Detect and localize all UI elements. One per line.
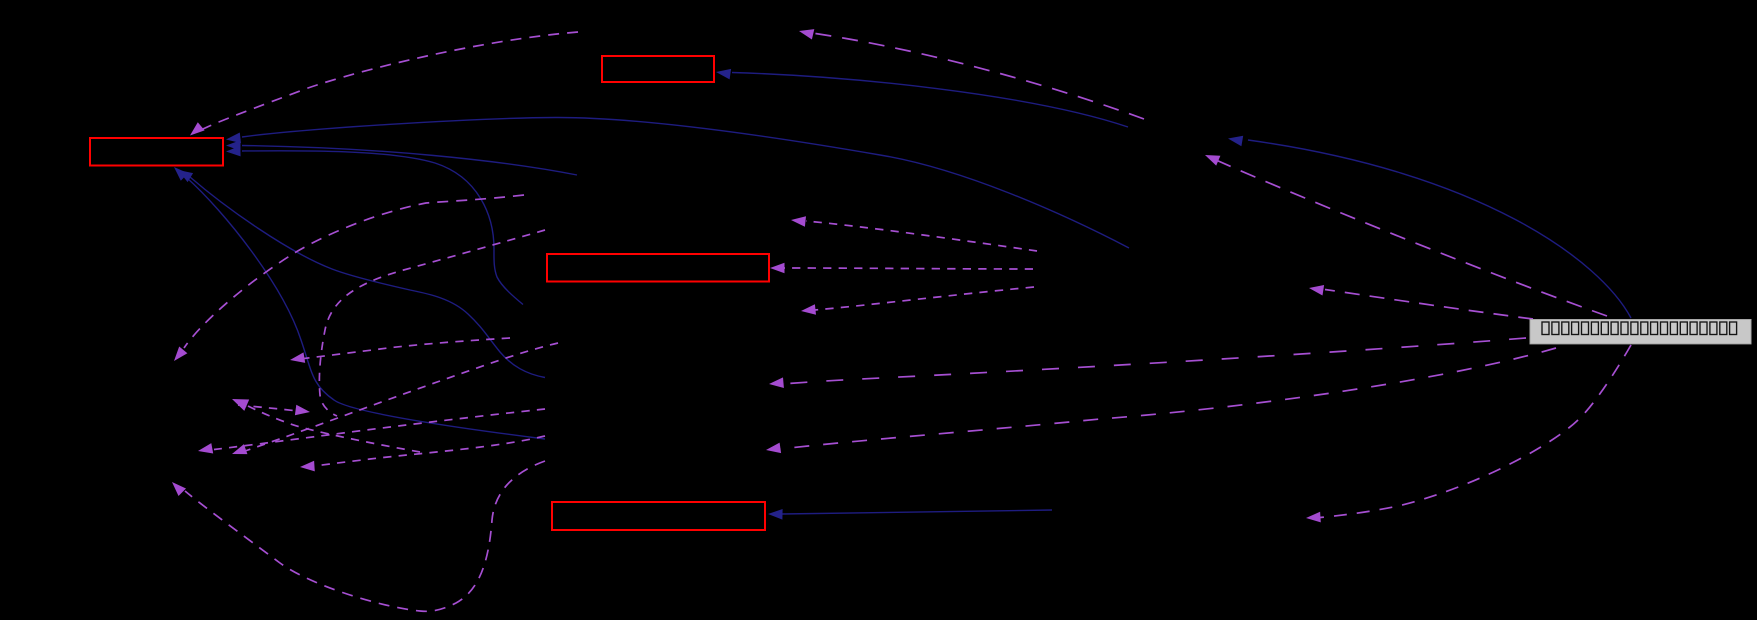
edge dashed H4 [214, 409, 545, 450]
node B2 (red box) [90, 138, 223, 166]
edge blue Na to B2 bottom 2 [190, 177, 545, 378]
arrowhead 768,450 (P3) [766, 443, 781, 454]
edge dashed NH2 to arrow292 (H2) [304, 338, 510, 359]
edge dashed X5 to arrow793 [806, 221, 1037, 251]
edge dashed gray-box corner to arrow1310 [1325, 290, 1533, 320]
edge dashed swoop H7 [185, 461, 545, 611]
arrowhead 803,311 [801, 304, 816, 315]
arrowhead H3 234,399 [232, 399, 249, 411]
edge dashed beta to NV [238, 405, 298, 411]
arrowhead 771,384 (P1) [769, 377, 784, 388]
edge dashed gray-box to arrow1206 [1216, 160, 1607, 316]
edge dashed A to arrow175 (H1) [184, 195, 524, 348]
node current (gray box with missing-glyph label) [1530, 320, 1751, 344]
edge dashed X5 to arrow803 [815, 287, 1034, 310]
edge dashed H6 [315, 436, 545, 466]
node B3 (red box) [547, 254, 769, 282]
arrowhead H5 234,454 [232, 444, 247, 454]
arrowhead H7 173,483 [172, 482, 186, 496]
edge dashed gray-box swoop to arrow1307 [1320, 345, 1631, 518]
node B4 (red box) [552, 502, 765, 530]
edge dashed gray-box to arrow771 (P1) [783, 338, 1526, 384]
arrowhead H2 292,360 [290, 352, 305, 363]
arrowhead H6 302,467 [300, 461, 315, 472]
edge blue X8 to B2 middle [242, 146, 577, 176]
node B1 (red box) [602, 56, 714, 82]
arrowhead H1 175,361 [174, 347, 187, 362]
edge blue X9 to B2 upper (long arc) [242, 117, 1129, 248]
edge dashed DG to arrow234 (H5) [245, 343, 558, 451]
edge blue X1 to B1 [732, 73, 1128, 128]
edge blue node to B4 [782, 510, 1052, 514]
arrowhead 1206,156 [1205, 155, 1220, 166]
edge blue N1 to B2 lower (hook) [242, 151, 523, 305]
arrowhead X7 [799, 29, 814, 39]
dashed edges [184, 32, 1631, 611]
arrowhead beta 309,412 [295, 405, 310, 416]
edge dashed X7 to B2 top [199, 32, 578, 131]
arrowhead 1307,518 swoop [1306, 512, 1321, 523]
dashed arrowheads [172, 29, 1324, 522]
arrowhead 1310,288 [1309, 285, 1324, 296]
edge dashed X1 to X7 [812, 33, 1144, 119]
edge dashed X5 to B3 [784, 268, 1033, 269]
edge blue gray-box to node X1 (arc) [1248, 140, 1631, 318]
arrowhead 793,220 [791, 216, 806, 227]
arrowhead B2 top [190, 122, 205, 135]
edge blue Nc to B2 bottom (s-curve) [186, 177, 545, 439]
edge dashed alpha to H3 [248, 406, 420, 452]
arrowhead B3 right [770, 263, 785, 274]
edge dashed gray-box to arrow768 (P3) [780, 348, 1556, 449]
arrowhead H4 199,451 [198, 443, 213, 453]
edge dashed C-dash to NV [319, 230, 545, 416]
